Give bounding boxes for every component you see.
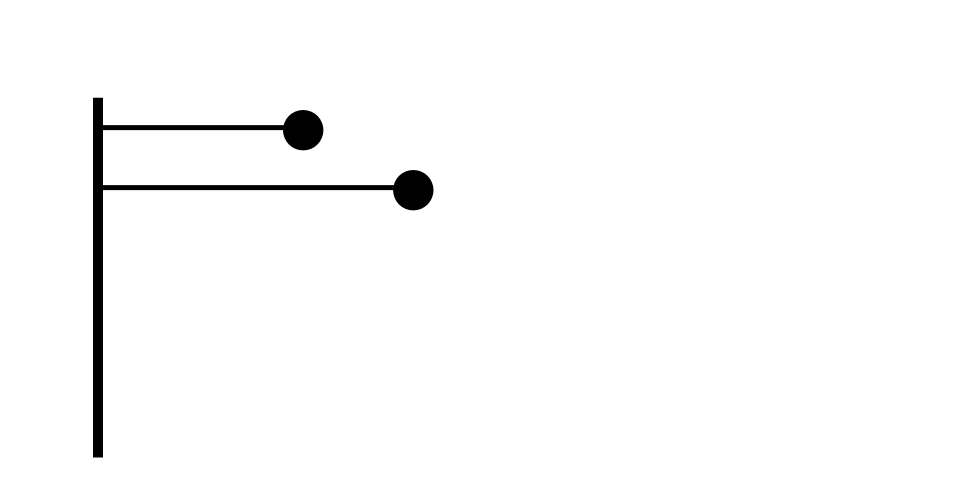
lollipop dot 2 — [393, 170, 433, 210]
lollipop dot 1 — [283, 110, 323, 150]
lollipop stem 2 — [98, 185, 413, 190]
lollipop stem 1 — [98, 125, 303, 130]
vertical axis baseline — [93, 98, 103, 458]
